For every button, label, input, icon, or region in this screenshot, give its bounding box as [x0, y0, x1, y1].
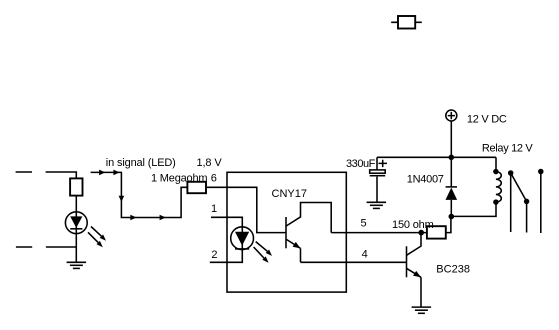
LED D1 indicator	[65, 212, 87, 234]
wire input top	[46, 172, 77, 178]
svg-text:12 V DC: 12 V DC	[467, 113, 507, 125]
wire resistor to LED	[75, 196, 77, 247]
internal LED light arrows	[254, 242, 272, 263]
resistor (top, unlabeled)	[391, 16, 422, 29]
svg-text:in signal (LED): in signal (LED)	[106, 157, 176, 169]
terminal input bottom	[16, 246, 32, 248]
wire resistor to pin 6	[206, 186, 227, 188]
node junction rail	[449, 155, 455, 161]
wire LED to ground	[75, 247, 77, 262]
transistor Q2 BC238	[407, 233, 422, 308]
capacitor C1 330uF	[370, 157, 387, 202]
ground (BC238 emitter)	[412, 307, 432, 313]
svg-text:4: 4	[362, 248, 368, 260]
wire signal path with flow arrows	[91, 170, 188, 221]
terminal input top	[16, 171, 32, 173]
wire pin 6 to phototransistor base	[227, 187, 286, 232]
wire +12V rail	[377, 156, 496, 158]
ground (capacitor)	[367, 202, 387, 208]
LED internal CNY17	[231, 227, 254, 250]
svg-text:1,8 V: 1,8 V	[197, 157, 223, 169]
svg-text:6: 6	[211, 172, 217, 184]
transistor Q1 phototransistor CNY17	[286, 203, 331, 263]
relay switch contacts	[508, 169, 544, 233]
relay K1 coil	[493, 157, 501, 205]
wire supply to rail	[450, 122, 452, 158]
wire input bottom	[46, 246, 76, 248]
wire 150 ohm to diode node	[446, 217, 451, 233]
op-amp U1 CNY17 package box	[227, 172, 346, 292]
svg-text:1N4007: 1N4007	[407, 174, 444, 186]
svg-text:330uF: 330uF	[346, 158, 376, 170]
svg-text:2: 2	[211, 249, 217, 261]
node junction collector/150ohm	[418, 230, 424, 236]
svg-text:5: 5	[361, 218, 367, 230]
resistor 1 Megaohm	[187, 182, 206, 193]
svg-text:CNY17: CNY17	[272, 188, 307, 200]
wire pin 1 stub	[211, 217, 242, 238]
svg-text:Relay 12 V: Relay 12 V	[482, 143, 534, 155]
wire node to relay coil bottom	[451, 202, 496, 216]
supply +12V	[446, 110, 457, 121]
svg-text:1: 1	[211, 203, 217, 215]
resistor input series	[70, 178, 82, 195]
wire pin 4 emitter out	[301, 261, 407, 263]
wire pin 2 stub	[210, 238, 243, 262]
node junction diode/relay/150ohm	[449, 214, 455, 220]
resistor 150 ohm	[427, 226, 446, 238]
wire pin 5 collector out	[331, 232, 427, 234]
diode D2 1N4007	[446, 157, 458, 216]
LED light arrows	[88, 227, 106, 248]
svg-text:BC238: BC238	[436, 264, 470, 276]
ground (input)	[67, 262, 87, 268]
